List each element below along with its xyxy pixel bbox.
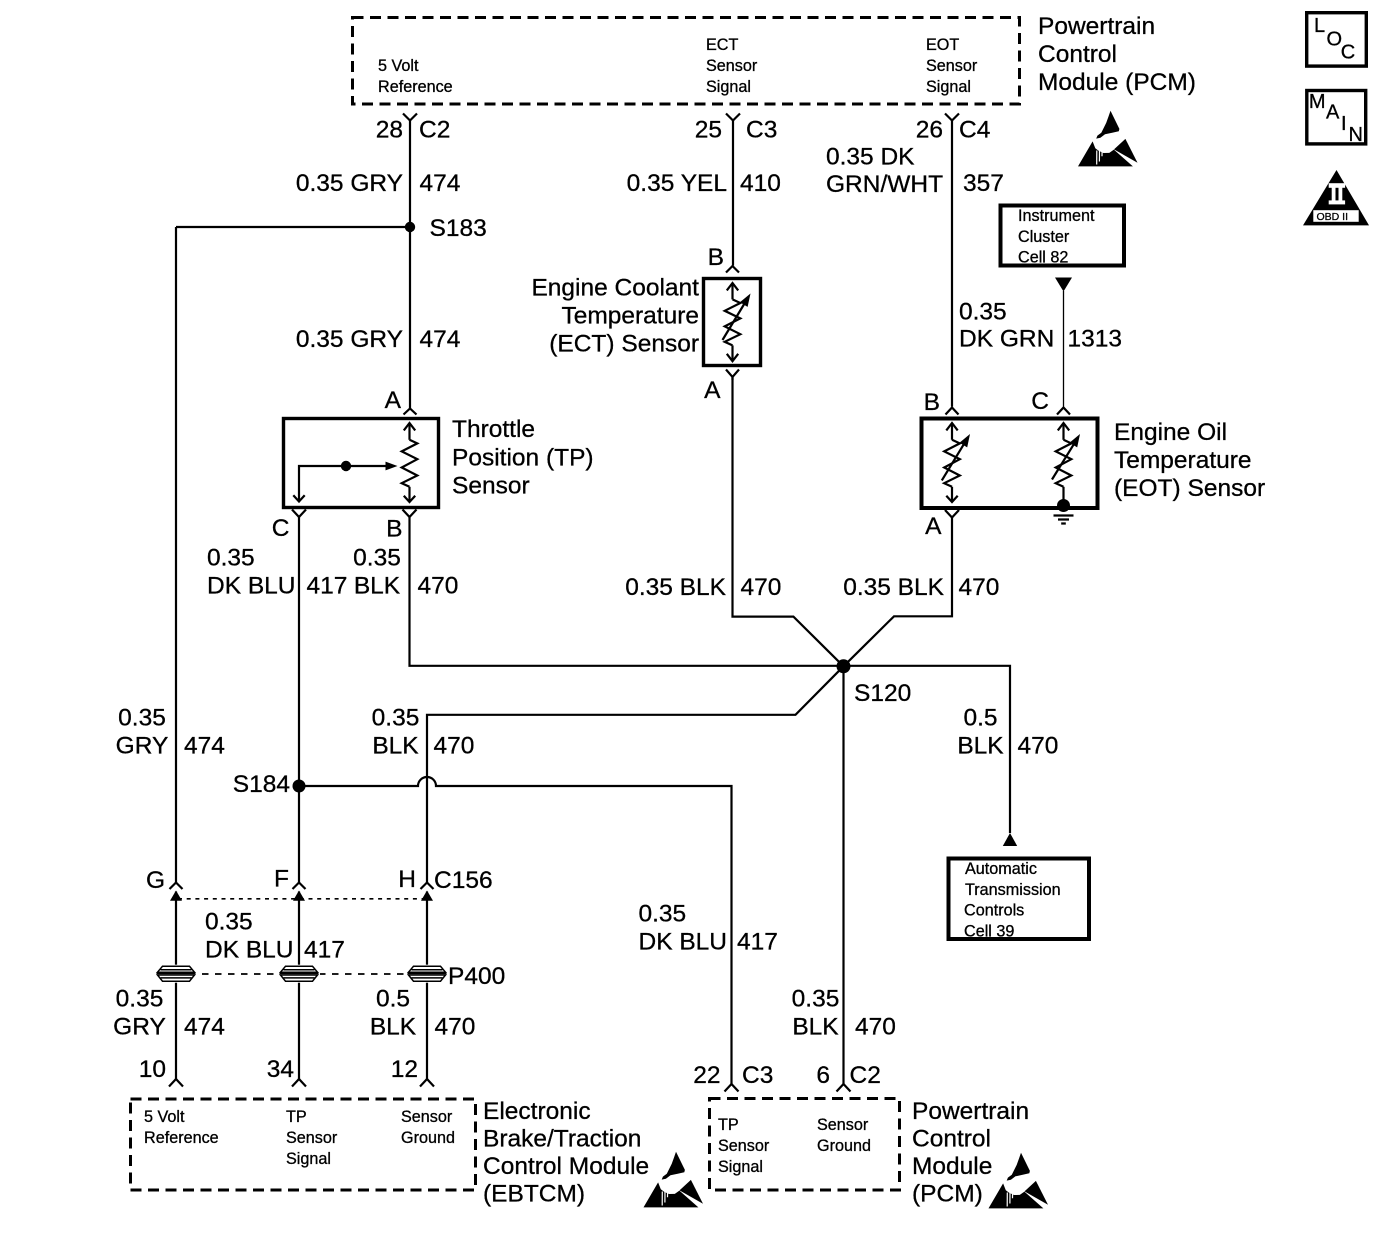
pin C (TP) bbox=[292, 510, 306, 518]
svg-text:Position (TP): Position (TP) bbox=[452, 445, 594, 472]
box Automatic Transmission Controls Cell 39 bbox=[949, 859, 1090, 940]
svg-text:GRN/WHT: GRN/WHT bbox=[826, 171, 943, 198]
svg-text:1313: 1313 bbox=[1068, 326, 1123, 353]
svg-text:474: 474 bbox=[420, 326, 461, 353]
svg-text:0.35: 0.35 bbox=[116, 986, 164, 1013]
svg-text:C2: C2 bbox=[850, 1062, 881, 1089]
svg-text:Module: Module bbox=[912, 1153, 992, 1180]
pin 26 C4 (PCM) bbox=[945, 114, 959, 121]
thermistor EOT left bbox=[942, 423, 965, 502]
svg-text:Automatic: Automatic bbox=[965, 860, 1037, 878]
svg-text:Reference: Reference bbox=[378, 78, 453, 96]
svg-text:0.35 GRY: 0.35 GRY bbox=[296, 326, 403, 353]
svg-text:S120: S120 bbox=[854, 680, 911, 707]
svg-text:28: 28 bbox=[376, 117, 403, 144]
svg-text:Control Module: Control Module bbox=[483, 1153, 649, 1180]
svg-text:A: A bbox=[704, 377, 721, 404]
box Instrument Cluster Cell 82 bbox=[1001, 206, 1125, 266]
svg-text:470: 470 bbox=[741, 574, 782, 601]
svg-text:0.35 GRY: 0.35 GRY bbox=[296, 170, 403, 197]
svg-text:Sensor: Sensor bbox=[401, 1108, 453, 1126]
svg-text:Sensor: Sensor bbox=[817, 1116, 869, 1134]
grommet P400 (middle) bbox=[278, 965, 320, 983]
pin A (ECT) bbox=[726, 370, 739, 381]
pin 12 (EBTCM) bbox=[420, 1079, 434, 1087]
thermistor EOT right bbox=[1052, 423, 1074, 505]
svg-text:BLK: BLK bbox=[792, 1014, 839, 1041]
svg-text:Sensor: Sensor bbox=[718, 1137, 770, 1155]
svg-text:B: B bbox=[708, 244, 724, 271]
svg-text:0.35: 0.35 bbox=[205, 909, 253, 936]
pin B (TP) bbox=[403, 510, 417, 518]
wiper arrow (TP) bbox=[299, 466, 386, 501]
wire 417 from S184 to PCM 22 (hops over H wire) bbox=[299, 777, 732, 1084]
svg-text:Sensor: Sensor bbox=[706, 57, 758, 75]
svg-text:0.35: 0.35 bbox=[207, 545, 255, 572]
svg-text:C4: C4 bbox=[959, 117, 990, 144]
svg-text:I: I bbox=[1341, 113, 1347, 135]
svg-text:0.35: 0.35 bbox=[372, 705, 420, 732]
wire 470 from EOT A to S120 bbox=[844, 518, 953, 667]
svg-text:EOT: EOT bbox=[926, 36, 959, 54]
svg-text:C3: C3 bbox=[746, 117, 777, 144]
svg-text:S184: S184 bbox=[233, 771, 290, 798]
wire 474 from S183 down to TP A bbox=[409, 227, 411, 408]
svg-text:Control: Control bbox=[912, 1126, 991, 1153]
svg-text:TP: TP bbox=[718, 1116, 739, 1134]
svg-text:0.35: 0.35 bbox=[353, 545, 401, 572]
svg-text:B: B bbox=[924, 389, 940, 416]
sensor ECT box bbox=[704, 279, 761, 366]
svg-text:470: 470 bbox=[418, 573, 459, 600]
svg-text:BLK: BLK bbox=[370, 1014, 417, 1041]
connector P400 dashed line bbox=[176, 973, 445, 975]
symbol OBD II triangle bbox=[1303, 170, 1369, 225]
svg-text:F: F bbox=[274, 866, 289, 893]
wire 470 from ECT A to S120 bbox=[733, 377, 844, 666]
svg-text:A: A bbox=[385, 387, 402, 414]
svg-text:Cell 82: Cell 82 bbox=[1018, 249, 1068, 267]
svg-text:GRY: GRY bbox=[116, 733, 169, 760]
svg-text:BLK: BLK bbox=[957, 733, 1004, 760]
pin G (C156) bbox=[170, 883, 183, 890]
svg-text:5 Volt: 5 Volt bbox=[144, 1108, 185, 1126]
svg-text:Signal: Signal bbox=[926, 78, 971, 96]
pin 6 C2 (PCM bottom) bbox=[837, 1084, 851, 1092]
wire 417 from TP C through S184 to C156 F bbox=[298, 517, 300, 883]
svg-text:Controls: Controls bbox=[964, 902, 1024, 920]
svg-text:(ECT) Sensor: (ECT) Sensor bbox=[549, 331, 699, 358]
svg-text:P400: P400 bbox=[448, 963, 505, 990]
svg-text:0.5: 0.5 bbox=[376, 986, 410, 1013]
svg-text:Cell 39: Cell 39 bbox=[964, 923, 1014, 941]
pin H (C156) bbox=[421, 883, 434, 890]
svg-text:357: 357 bbox=[963, 170, 1004, 197]
ESD symbol top (PCM) bbox=[989, 1153, 1049, 1209]
svg-text:470: 470 bbox=[959, 574, 1000, 601]
svg-text:Instrument: Instrument bbox=[1018, 207, 1095, 225]
wire 357 from PCM 26 to EOT B bbox=[951, 121, 953, 407]
svg-text:H: H bbox=[398, 866, 416, 893]
svg-text:Signal: Signal bbox=[706, 78, 751, 96]
svg-text:470: 470 bbox=[435, 1014, 476, 1041]
sensor EOT box bbox=[922, 419, 1098, 509]
pin F (C156) bbox=[293, 883, 306, 890]
svg-text:DK GRN: DK GRN bbox=[959, 326, 1054, 353]
svg-text:C: C bbox=[272, 515, 290, 542]
wire 470 from S120 to Automatic Transmission Controls bbox=[844, 666, 1011, 833]
svg-text:M: M bbox=[1309, 91, 1326, 113]
thermistor ECT bbox=[723, 283, 745, 361]
svg-text:470: 470 bbox=[855, 1014, 896, 1041]
svg-text:5 Volt: 5 Volt bbox=[378, 57, 419, 75]
svg-text:Temperature: Temperature bbox=[561, 303, 699, 330]
svg-text:0.35: 0.35 bbox=[639, 901, 687, 928]
svg-text:0.35 BLK: 0.35 BLK bbox=[843, 574, 944, 601]
svg-text:0.35: 0.35 bbox=[792, 986, 840, 1013]
wire 1313 from Instrument Cluster to EOT C bbox=[1063, 291, 1065, 407]
svg-text:(EOT) Sensor: (EOT) Sensor bbox=[1114, 475, 1265, 502]
svg-text:0.35 BLK: 0.35 BLK bbox=[625, 574, 726, 601]
pin 34 (EBTCM) bbox=[292, 1079, 306, 1087]
svg-text:Temperature: Temperature bbox=[1114, 447, 1252, 474]
svg-text:O: O bbox=[1327, 28, 1343, 50]
svg-text:TP: TP bbox=[286, 1108, 307, 1126]
svg-text:A: A bbox=[925, 513, 942, 540]
svg-text:0.35: 0.35 bbox=[959, 299, 1007, 326]
wire 410 from PCM 25 to ECT B bbox=[732, 121, 734, 266]
svg-text:Throttle: Throttle bbox=[452, 416, 535, 443]
svg-text:26: 26 bbox=[916, 117, 943, 144]
grommet P400 (right) bbox=[406, 965, 448, 983]
svg-text:34: 34 bbox=[267, 1056, 294, 1083]
svg-text:417: 417 bbox=[737, 929, 778, 956]
svg-text:Signal: Signal bbox=[286, 1150, 331, 1168]
node S120 bbox=[837, 659, 851, 673]
svg-text:Sensor: Sensor bbox=[926, 57, 978, 75]
grommet P400 (left) bbox=[155, 965, 197, 983]
svg-text:C: C bbox=[1031, 388, 1049, 415]
arrow from Instrument Cluster bbox=[1055, 278, 1072, 292]
svg-text:DK BLU: DK BLU bbox=[205, 937, 294, 964]
pin A (EOT) bbox=[945, 510, 959, 518]
svg-text:Engine Oil: Engine Oil bbox=[1114, 419, 1227, 446]
svg-text:Sensor: Sensor bbox=[452, 473, 530, 500]
svg-text:Cluster: Cluster bbox=[1018, 228, 1070, 246]
potentiometer TP bbox=[402, 423, 418, 502]
module EBTCM dashed box bbox=[131, 1099, 476, 1190]
svg-text:Brake/Traction: Brake/Traction bbox=[483, 1126, 641, 1153]
svg-text:Ground: Ground bbox=[817, 1137, 871, 1155]
svg-text:0.35 YEL: 0.35 YEL bbox=[627, 170, 727, 197]
svg-text:C2: C2 bbox=[419, 117, 450, 144]
svg-text:Sensor: Sensor bbox=[286, 1129, 338, 1147]
svg-text:DK BLU: DK BLU bbox=[207, 573, 296, 600]
svg-text:C: C bbox=[1341, 41, 1355, 63]
wire 474 from S183 to left column bbox=[176, 226, 410, 228]
connector LOC box bbox=[1307, 13, 1367, 66]
ESD symbol (EBTCM) bbox=[644, 1152, 704, 1208]
svg-text:Engine Coolant: Engine Coolant bbox=[531, 275, 699, 302]
svg-text:Ground: Ground bbox=[401, 1129, 455, 1147]
pin B (ECT) bbox=[726, 266, 739, 273]
svg-text:Transmission: Transmission bbox=[965, 881, 1061, 899]
svg-text:417: 417 bbox=[304, 937, 345, 964]
svg-text:Signal: Signal bbox=[718, 1158, 763, 1176]
svg-text:0.5: 0.5 bbox=[963, 705, 997, 732]
module PCM top dashed box bbox=[353, 18, 1020, 105]
pin 10 (EBTCM) bbox=[169, 1079, 183, 1087]
pin A (TP) bbox=[404, 409, 417, 415]
svg-text:(EBTCM): (EBTCM) bbox=[483, 1181, 585, 1208]
svg-text:N: N bbox=[1349, 124, 1363, 146]
svg-text:L: L bbox=[1314, 15, 1325, 37]
svg-text:Powertrain: Powertrain bbox=[912, 1098, 1029, 1125]
svg-text:Module (PCM): Module (PCM) bbox=[1038, 69, 1196, 96]
svg-text:6: 6 bbox=[816, 1062, 830, 1089]
wire 470 from TP B to S120 bbox=[410, 517, 844, 666]
wire 474 left column down to C156 G bbox=[175, 227, 177, 883]
svg-text:ECT: ECT bbox=[706, 36, 738, 54]
svg-text:474: 474 bbox=[420, 170, 461, 197]
pin C (EOT) bbox=[1057, 408, 1070, 415]
svg-text:470: 470 bbox=[1018, 733, 1059, 760]
svg-text:417: 417 bbox=[307, 573, 348, 600]
svg-text:S183: S183 bbox=[430, 215, 487, 242]
svg-text:BLK: BLK bbox=[372, 733, 419, 760]
svg-text:22: 22 bbox=[693, 1062, 720, 1089]
svg-text:A: A bbox=[1326, 102, 1340, 124]
svg-text:0.35: 0.35 bbox=[118, 705, 166, 732]
svg-text:Reference: Reference bbox=[144, 1129, 219, 1147]
connector C156 dashed line bbox=[178, 898, 427, 900]
arrow to Automatic Transmission Controls bbox=[1003, 833, 1017, 846]
svg-text:0.35 DK: 0.35 DK bbox=[826, 144, 915, 171]
ground (EOT internal) bbox=[1057, 499, 1070, 512]
module PCM bottom dashed box bbox=[710, 1099, 900, 1191]
svg-text:Powertrain: Powertrain bbox=[1038, 13, 1155, 40]
svg-text:C156: C156 bbox=[434, 867, 493, 894]
connector MAIN box bbox=[1307, 91, 1366, 144]
svg-text:474: 474 bbox=[184, 1014, 225, 1041]
pin 25 C3 (PCM) bbox=[726, 114, 740, 121]
svg-text:Electronic: Electronic bbox=[483, 1098, 591, 1125]
svg-text:Control: Control bbox=[1038, 41, 1117, 68]
svg-text:G: G bbox=[146, 867, 165, 894]
svg-text:BLK: BLK bbox=[354, 573, 401, 600]
svg-text:470: 470 bbox=[434, 733, 475, 760]
svg-text:GRY: GRY bbox=[113, 1014, 166, 1041]
svg-text:25: 25 bbox=[695, 117, 722, 144]
svg-text:10: 10 bbox=[139, 1056, 166, 1083]
svg-text:C3: C3 bbox=[742, 1062, 773, 1089]
svg-text:DK BLU: DK BLU bbox=[639, 929, 728, 956]
svg-text:OBD II: OBD II bbox=[1317, 211, 1349, 223]
svg-text:474: 474 bbox=[184, 733, 225, 760]
svg-text:12: 12 bbox=[391, 1056, 418, 1083]
pin 22 C3 (PCM bottom) bbox=[725, 1084, 739, 1092]
wire 470 from S120 down to PCM 6 bbox=[842, 666, 844, 1084]
svg-text:B: B bbox=[386, 516, 402, 543]
svg-text:410: 410 bbox=[740, 170, 781, 197]
node S184 bbox=[293, 780, 306, 793]
svg-text:(PCM): (PCM) bbox=[912, 1181, 983, 1208]
pin 28 C2 (PCM) bbox=[403, 114, 417, 121]
sensor TP box bbox=[284, 419, 439, 508]
node S183 bbox=[405, 222, 415, 232]
wire 474 from PCM 28 to S183 bbox=[409, 121, 411, 228]
wire 470 from S120 to C156 H bbox=[427, 666, 844, 882]
pin B (EOT) bbox=[946, 408, 959, 415]
